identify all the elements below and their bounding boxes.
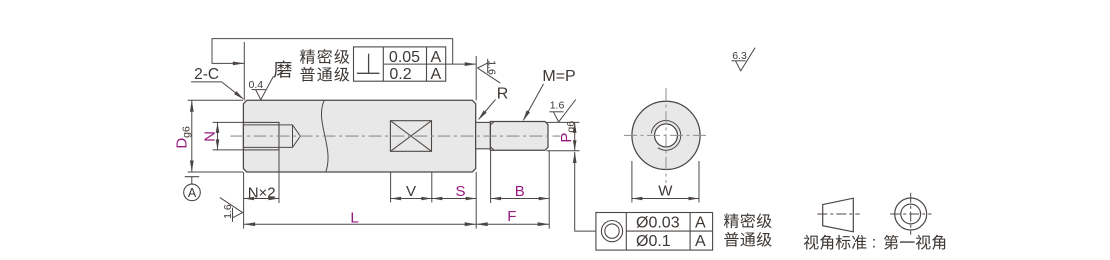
svg-text:6.3: 6.3 (732, 50, 747, 62)
end view tapped hole circle (655, 124, 678, 147)
dimension N×2 (tap depth) (243, 172, 245, 229)
roughness 1.6 on L extension (232, 208, 234, 222)
svg-text:B: B (515, 183, 525, 200)
end view thread arc (651, 121, 680, 151)
dimension L (body length) (475, 172, 477, 229)
broken-out section wavy break line (321, 100, 328, 172)
wrench flat diagonals (390, 121, 431, 152)
coaxiality leader (575, 152, 596, 231)
dimension B (thread length) (490, 151, 492, 204)
first-angle circle view (895, 198, 927, 230)
roughness 1.6 above thread end (549, 111, 563, 113)
svg-text:R: R (497, 85, 509, 102)
threaded end section M=P (490, 122, 548, 151)
svg-text:1.6: 1.6 (485, 60, 497, 75)
dimension V (wrench flat length) (390, 172, 392, 202)
shoulder face extension line (475, 56, 477, 100)
datum A symbol (185, 176, 200, 178)
svg-text:F: F (507, 208, 516, 225)
perpendicularity frame leader (212, 39, 453, 65)
left face extension line (243, 42, 245, 100)
svg-text:M=P: M=P (542, 68, 575, 85)
svg-text:A: A (430, 66, 441, 83)
svg-text:1.6: 1.6 (550, 100, 565, 112)
svg-text:N: N (202, 131, 219, 142)
svg-text:S: S (455, 183, 465, 200)
grind mark 磨 with roughness 0.4 (274, 60, 292, 77)
dimension D g6 (shaft diameter) (188, 99, 243, 101)
svg-text:A: A (188, 186, 197, 200)
svg-text:A: A (695, 233, 706, 250)
roughness 1.6 on shoulder extension (487, 59, 489, 73)
dimension N (tap diameter) (213, 121, 244, 123)
tapped hole drill bore lines (243, 124, 292, 126)
dimension P g6 (thread end diameter) (547, 121, 580, 123)
main centerline (231, 135, 561, 137)
svg-text:0.05: 0.05 (389, 49, 420, 66)
wrench flat (cross box) (390, 121, 431, 152)
shaft main body (large cylinder) (243, 100, 475, 172)
svg-text:2-C: 2-C (194, 66, 219, 83)
svg-text::: : (872, 234, 876, 251)
end view outer circle (632, 101, 700, 169)
end view centerlines (624, 134, 708, 136)
svg-text:V: V (406, 183, 416, 200)
general roughness 6.3 (732, 60, 746, 62)
svg-text:A: A (430, 49, 441, 66)
shaft neck undercut at shoulder (476, 122, 491, 148)
perpendicularity feature control frame (354, 47, 446, 81)
tapped hole thread major outline (243, 122, 279, 149)
svg-text:Ø0.03: Ø0.03 (636, 214, 680, 231)
concentricity symbol (601, 221, 622, 242)
svg-text:0.2: 0.2 (389, 66, 411, 83)
svg-text:0.4: 0.4 (248, 79, 263, 91)
perpendicularity symbol (357, 72, 380, 74)
svg-text:W: W (658, 183, 673, 200)
coaxiality feature control frame (596, 213, 713, 251)
svg-text:L: L (350, 210, 358, 227)
dimension W (631, 161, 633, 203)
dimension S (432, 198, 476, 200)
svg-text:1.6: 1.6 (222, 204, 234, 219)
grade labels for perpendicularity (300, 49, 315, 64)
grade labels for coaxiality (724, 213, 739, 228)
svg-text:A: A (695, 214, 706, 231)
dimension F (476, 223, 549, 225)
svg-text:N×2: N×2 (248, 184, 276, 201)
first-angle cone symbol (823, 198, 854, 232)
thread runout chamfer lines (490, 122, 494, 126)
svg-text:Ø0.1: Ø0.1 (636, 233, 671, 250)
caption 视角标准：第一视角 (804, 235, 819, 250)
drill point cone (293, 125, 301, 147)
